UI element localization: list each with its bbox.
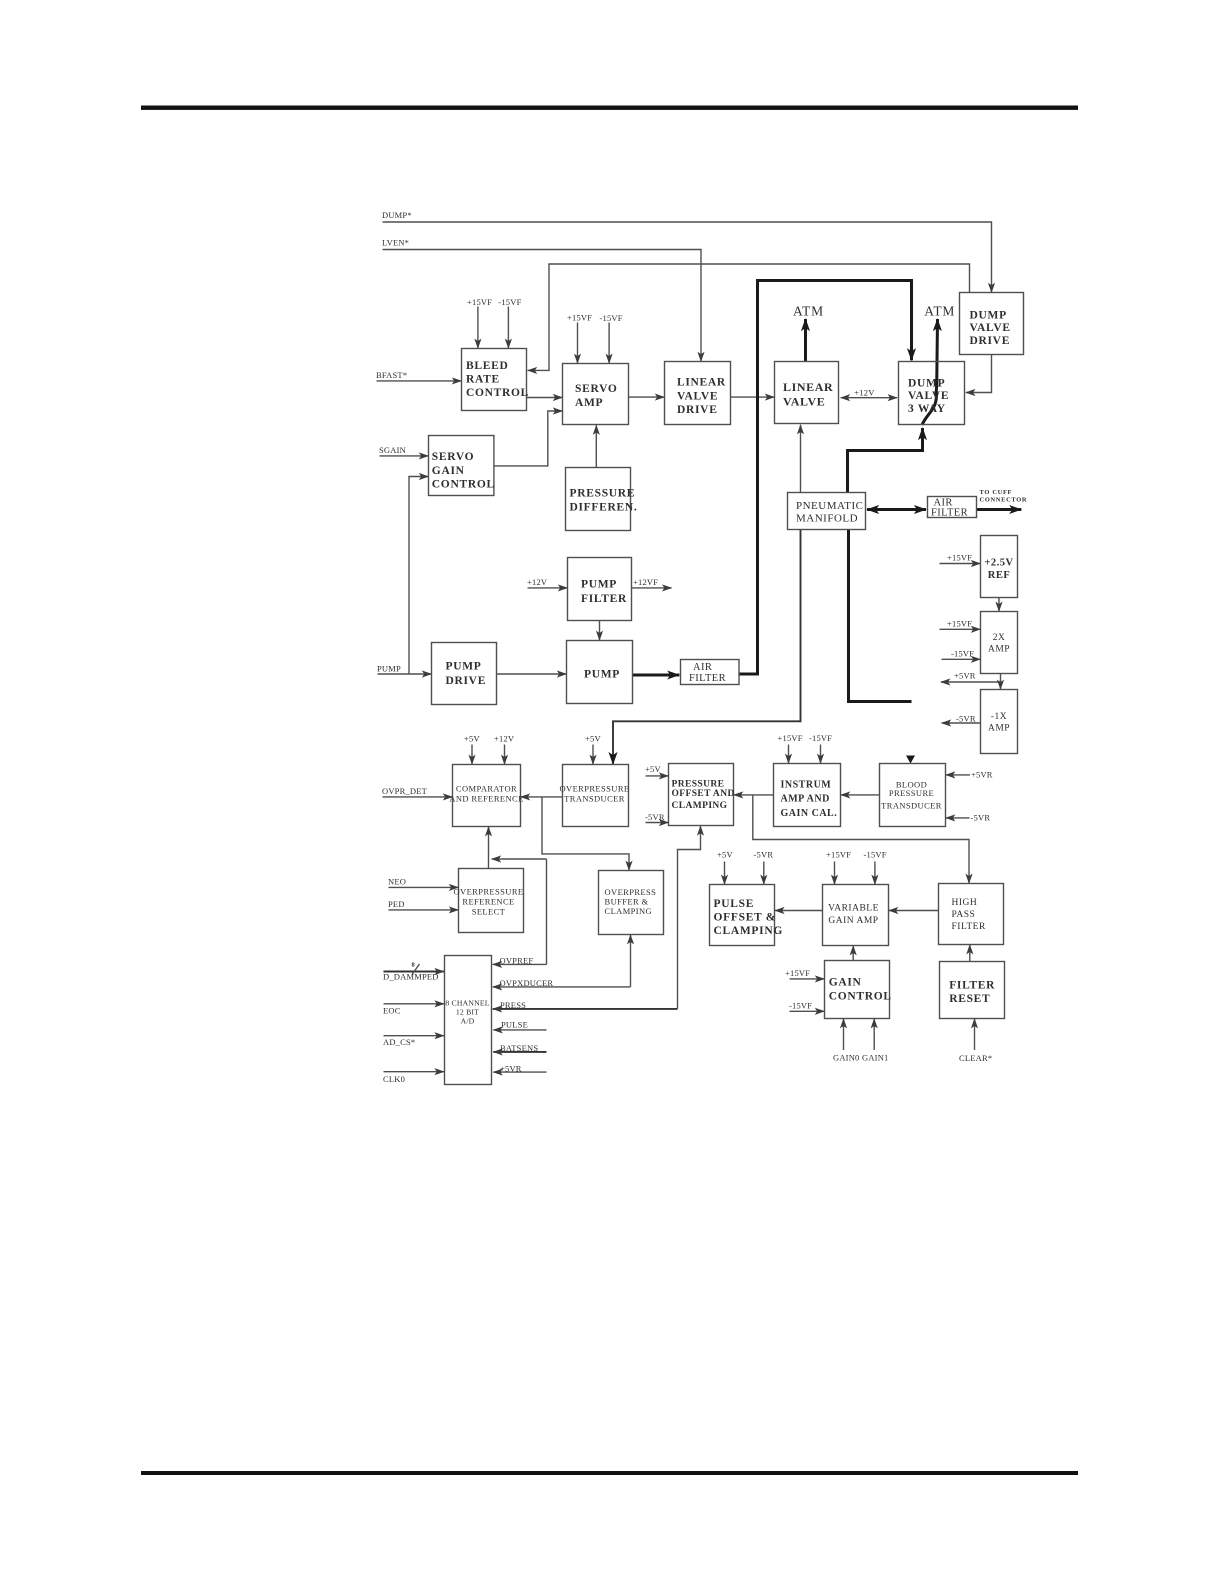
block PRESSURE DIFFEREN.	[566, 468, 638, 531]
wire NEO input	[388, 877, 458, 888]
svg-text:ATM: ATM	[793, 304, 824, 319]
wire SERVO GAIN CONTROL to SERVO AMP	[494, 411, 562, 466]
supply +5V into PRESSURE OFFSET AND CLAMPING	[645, 764, 668, 776]
svg-text:CLAMPING: CLAMPING	[672, 801, 728, 811]
block LINEAR VALVE DRIVE	[665, 362, 731, 425]
svg-text:+12V: +12V	[854, 388, 875, 398]
wire DUMP VALVE DRIVE to DUMP VALVE 3 WAY	[966, 355, 992, 393]
wire BATSENS stub into A/D	[493, 1043, 546, 1053]
svg-text:8: 8	[412, 962, 416, 969]
supply -5VR into BLOOD PRESSURE TRANSDUCER	[946, 813, 991, 823]
block FILTER RESET	[940, 962, 1005, 1019]
block INSTRUM AMP AND GAIN CAL	[774, 764, 841, 827]
svg-text:GAIN CAL.: GAIN CAL.	[781, 808, 838, 819]
svg-text:PULSE: PULSE	[714, 898, 755, 910]
block DUMP VALVE 3 WAY	[899, 362, 965, 425]
supply +5V into PULSE OFFSET	[717, 850, 733, 885]
pneumatic PNEUMATIC MANIFOLD to right AIR FILTER double arrow	[867, 508, 926, 511]
wire PUMP FILTER to PUMP	[599, 621, 601, 641]
wire +5VR stub into A/D	[493, 1063, 546, 1073]
supply +15VF into VARIABLE GAIN AMP	[826, 850, 851, 885]
svg-text:CONTROL: CONTROL	[829, 991, 892, 1003]
svg-text:DUMP: DUMP	[970, 310, 1007, 322]
svg-text:DRIVE: DRIVE	[677, 404, 718, 416]
svg-text:+15VF: +15VF	[826, 850, 851, 860]
svg-text:VALVE: VALVE	[783, 395, 825, 409]
ATM vent arrow above LINEAR VALVE	[793, 304, 824, 362]
block PUMP FILTER	[568, 558, 632, 621]
svg-text:LINEAR: LINEAR	[677, 377, 726, 389]
svg-text:DUMP: DUMP	[908, 378, 945, 390]
wire HIGH PASS FILTER to VARIABLE GAIN AMP	[889, 910, 939, 912]
wire PUMP input with branch to SERVO GAIN CONTROL	[377, 477, 431, 675]
wire OVPXDUCER from A/D to OVERPRESS BUFFER bottom	[493, 935, 631, 988]
pneumatic manifold down toward BLOOD PRESSURE TRANSDUCER	[849, 530, 912, 702]
wire GAIN0 input	[833, 1019, 860, 1063]
block +2.5V REF	[981, 536, 1018, 598]
svg-text:LVEN*: LVEN*	[382, 238, 409, 248]
wire branch to HIGH PASS FILTER	[753, 795, 969, 883]
svg-text:TRANSDUCER: TRANSDUCER	[564, 794, 625, 804]
bottom rule	[141, 1471, 1078, 1475]
wire PRESSURE DIFFEREN. to SERVO AMP	[595, 425, 597, 467]
svg-text:BATSENS: BATSENS	[500, 1043, 538, 1053]
svg-text:+15VF: +15VF	[947, 553, 972, 563]
svg-text:CONNECTOR: CONNECTOR	[980, 497, 1028, 504]
svg-text:FILTER: FILTER	[581, 593, 627, 605]
svg-text:PUMP: PUMP	[584, 669, 620, 681]
svg-text:OVPREF: OVPREF	[500, 956, 534, 966]
svg-text:3 WAY: 3 WAY	[908, 403, 946, 415]
svg-text:SGAIN: SGAIN	[379, 445, 406, 455]
pneumatic manifold to LINEAR VALVE bottom	[800, 425, 802, 493]
svg-text:CLEAR*: CLEAR*	[959, 1053, 992, 1063]
svg-text:+12V: +12V	[494, 734, 515, 744]
svg-text:TO CUFF: TO CUFF	[980, 489, 1013, 496]
svg-text:OFFSET AND: OFFSET AND	[672, 789, 735, 799]
block 2X AMP	[981, 612, 1018, 674]
svg-text:FILTER: FILTER	[949, 980, 995, 992]
pneumatic manifold down to OVERPRESSURE TRANSDUCER	[613, 530, 801, 765]
svg-text:VALVE: VALVE	[677, 391, 718, 403]
block PNEUMATIC MANIFOLD	[788, 493, 866, 530]
wire SGAIN input	[379, 445, 428, 456]
svg-text:+15VF: +15VF	[778, 733, 803, 743]
svg-text:-15VF: -15VF	[951, 649, 974, 659]
block AIR FILTER right	[928, 497, 977, 519]
wire +12V into PUMP FILTER	[527, 577, 567, 588]
svg-text:REF: REF	[988, 570, 1011, 581]
svg-text:PRESSURE: PRESSURE	[672, 779, 725, 789]
svg-text:SELECT: SELECT	[472, 907, 506, 917]
svg-text:GAIN0: GAIN0	[833, 1053, 860, 1063]
block COMPARATOR AND REFERENCE	[449, 765, 523, 827]
svg-text:RATE: RATE	[466, 373, 500, 385]
wire dump branch to BLEED RATE CONTROL	[528, 264, 970, 370]
block OVERPRESS BUFFER &amp; CLAMPING	[599, 871, 664, 935]
svg-text:+5VR: +5VR	[971, 770, 993, 780]
supply -15VF into SERVO AMP	[600, 313, 623, 363]
svg-text:AMP: AMP	[575, 397, 603, 409]
svg-text:REFERENCE: REFERENCE	[462, 897, 514, 907]
supply +5V into COMPARATOR AND REFERENCE	[464, 734, 480, 765]
block GAIN CONTROL	[825, 961, 892, 1019]
svg-text:CLAMPING: CLAMPING	[605, 906, 653, 916]
block VARIABLE GAIN AMP	[823, 885, 889, 946]
block 8 CHANNEL 12 BIT A/D	[445, 956, 492, 1085]
supply -15VF into INSTRUM AMP	[809, 733, 832, 763]
wire PUMP DRIVE to PUMP	[497, 673, 567, 675]
svg-text:OVPXDUCER: OVPXDUCER	[500, 978, 554, 988]
svg-text:INSTRUM: INSTRUM	[781, 780, 832, 791]
supply -15VF into 2X AMP	[942, 649, 981, 660]
svg-text:GAIN AMP: GAIN AMP	[828, 916, 878, 926]
block LINEAR VALVE	[775, 362, 839, 424]
wire +2.5V REF to 2X AMP	[998, 598, 1000, 612]
svg-text:BFAST*: BFAST*	[376, 370, 407, 380]
svg-text:+5V: +5V	[464, 734, 480, 744]
wire BFAST* input	[376, 370, 461, 381]
wire BLOOD PRESSURE TRANSDUCER to INSTRUM AMP	[841, 794, 880, 796]
svg-text:GAIN: GAIN	[829, 977, 862, 989]
svg-text:8 CHANNEL: 8 CHANNEL	[445, 999, 489, 1008]
supply +15VF into +2.5V REF	[940, 553, 981, 564]
svg-text:-5VR: -5VR	[645, 812, 665, 822]
wire D_DAMMPED bus into A/D with width-8 slash	[383, 962, 444, 982]
svg-text:FILTER: FILTER	[689, 673, 726, 684]
pneumatic AIR FILTER to cuff connector	[977, 489, 1028, 510]
svg-text:SERVO: SERVO	[575, 383, 618, 395]
svg-text:AMP: AMP	[988, 645, 1010, 655]
top rule	[141, 106, 1078, 110]
svg-text:PED: PED	[388, 899, 405, 909]
supply +15VF into BLEED RATE CONTROL	[467, 297, 492, 348]
wire +5VR output of 2X AMP and feed to -1X AMP	[941, 671, 1001, 690]
supply -15VF into GAIN CONTROL	[789, 1001, 824, 1012]
svg-text:-5VR: -5VR	[956, 714, 976, 724]
svg-text:FILTER: FILTER	[952, 922, 986, 932]
svg-text:PRESS: PRESS	[500, 1000, 526, 1010]
wire +12VF out of PUMP FILTER	[632, 577, 672, 588]
svg-text:+5VR: +5VR	[500, 1063, 522, 1073]
wire AD_CS* input	[383, 1036, 444, 1047]
supply +15VF into 2X AMP	[940, 619, 981, 630]
wire PRESS from A/D to PRESSURE OFFSET bottom	[493, 826, 701, 1010]
svg-text:CLK0: CLK0	[383, 1074, 405, 1084]
svg-text:VARIABLE: VARIABLE	[828, 904, 879, 914]
svg-text:OFFSET &: OFFSET &	[714, 912, 777, 924]
wire OVERPRESSURE REFERENCE SELECT to COMPARATOR	[488, 827, 490, 869]
block PULSE OFFSET &amp; CLAMPING	[710, 885, 784, 946]
supply -5VR into PRESSURE OFFSET AND CLAMPING	[645, 812, 668, 823]
block DUMP VALVE DRIVE	[960, 293, 1024, 355]
svg-text:AMP AND: AMP AND	[781, 794, 830, 805]
wire FILTER RESET to HIGH PASS FILTER	[969, 945, 971, 962]
wire LINEAR VALVE DRIVE to LINEAR VALVE	[731, 396, 775, 398]
block BLEED RATE CONTROL	[462, 349, 530, 411]
pneumatic PUMP to AIR FILTER	[633, 674, 680, 677]
svg-text:2X: 2X	[993, 633, 1006, 643]
svg-text:+5VR: +5VR	[954, 671, 976, 681]
svg-text:DUMP*: DUMP*	[382, 210, 412, 220]
block BLOOD PRESSURE TRANSDUCER	[880, 764, 946, 827]
svg-text:+2.5V: +2.5V	[984, 558, 1013, 569]
svg-text:AMP: AMP	[988, 724, 1010, 734]
svg-text:HIGH: HIGH	[952, 898, 978, 908]
svg-text:PULSE: PULSE	[501, 1020, 528, 1030]
supply -5VR into PULSE OFFSET	[754, 850, 774, 885]
svg-text:BUFFER &: BUFFER &	[605, 897, 649, 907]
block SERVO AMP	[563, 364, 629, 425]
pneumatic line PNEUMATIC MANIFOLD to DUMP VALVE 3 WAY bottom	[848, 428, 923, 493]
svg-text:OVPR_DET: OVPR_DET	[382, 786, 428, 796]
svg-text:DRIVE: DRIVE	[970, 335, 1011, 347]
svg-text:+15VF: +15VF	[785, 968, 810, 978]
block HIGH PASS FILTER	[939, 884, 1004, 945]
block AIR FILTER left	[681, 660, 740, 685]
supply +5V into OVERPRESSURE TRANSDUCER	[585, 734, 601, 765]
svg-text:-15VF: -15VF	[789, 1001, 812, 1011]
svg-text:FILTER: FILTER	[931, 508, 968, 519]
svg-text:TRANSDUCER: TRANSDUCER	[881, 801, 942, 811]
svg-text:COMPARATOR: COMPARATOR	[456, 784, 517, 794]
wire +12V between LINEAR VALVE and DUMP VALVE 3 WAY	[841, 388, 897, 398]
block PUMP	[567, 641, 633, 704]
supply +12V into COMPARATOR AND REFERENCE	[494, 734, 515, 765]
ATM vent arrow above DUMP VALVE 3 WAY with hose through valve	[922, 304, 955, 426]
wire CLEAR* input	[959, 1019, 992, 1063]
svg-text:PNEUMATIC: PNEUMATIC	[796, 500, 863, 512]
supply +15VF into INSTRUM AMP	[778, 733, 803, 763]
wire PULSE stub into A/D	[493, 1020, 546, 1030]
wire DUMP* to DUMP VALVE DRIVE	[382, 210, 992, 292]
svg-text:NEO: NEO	[388, 877, 406, 887]
svg-text:PUMP: PUMP	[581, 579, 617, 591]
svg-text:+15VF: +15VF	[467, 297, 492, 307]
svg-text:MANIFOLD: MANIFOLD	[796, 513, 858, 525]
svg-text:DRIVE: DRIVE	[446, 675, 487, 687]
svg-text:CLAMPING: CLAMPING	[714, 925, 784, 937]
wire INSTRUM AMP to PRESSURE OFFSET AND CLAMPING	[734, 794, 774, 796]
wire SERVO AMP to LINEAR VALVE DRIVE	[629, 396, 665, 398]
svg-text:-15VF: -15VF	[600, 313, 623, 323]
svg-text:-15VF: -15VF	[809, 733, 832, 743]
block OVERPRESSURE TRANSDUCER	[560, 765, 630, 827]
svg-text:PASS: PASS	[952, 910, 976, 920]
svg-text:+12V: +12V	[527, 577, 548, 587]
svg-text:+5V: +5V	[645, 764, 661, 774]
svg-text:+5V: +5V	[717, 850, 733, 860]
wire LVEN* to LINEAR VALVE DRIVE	[382, 238, 701, 362]
wire branch transducer output to OVERPRESS BUFFER	[542, 797, 629, 870]
svg-text:GAIN: GAIN	[432, 465, 465, 477]
svg-text:PRESSURE: PRESSURE	[889, 788, 934, 798]
wire VARIABLE GAIN AMP to PULSE OFFSET	[775, 910, 823, 912]
svg-text:OVERPRESS: OVERPRESS	[605, 887, 657, 897]
wire OVPR_DET input	[382, 786, 452, 797]
svg-text:RESET: RESET	[949, 993, 990, 1005]
wire BLEED RATE CONTROL to SERVO AMP	[527, 397, 563, 399]
block PUMP DRIVE	[432, 643, 497, 705]
block OVERPRESSURE REFERENCE SELECT	[454, 869, 524, 933]
svg-text:OVERPRESSURE: OVERPRESSURE	[560, 784, 630, 794]
svg-text:A/D: A/D	[461, 1017, 475, 1026]
svg-text:-15VF: -15VF	[498, 297, 521, 307]
svg-text:-1X: -1X	[991, 712, 1007, 722]
supply +15VF into SERVO AMP	[567, 313, 592, 364]
svg-text:+15VF: +15VF	[947, 619, 972, 629]
svg-text:DIFFEREN.: DIFFEREN.	[570, 502, 638, 514]
supply -15VF into VARIABLE GAIN AMP	[864, 850, 887, 885]
svg-text:PRESSURE: PRESSURE	[570, 488, 636, 500]
svg-text:BLEED: BLEED	[466, 360, 509, 372]
svg-text:PUMP: PUMP	[377, 664, 401, 674]
svg-text:AD_CS*: AD_CS*	[383, 1037, 415, 1047]
svg-text:GAIN1: GAIN1	[862, 1053, 889, 1063]
svg-text:12 BIT: 12 BIT	[456, 1008, 479, 1017]
supply -15VF into BLEED RATE CONTROL	[498, 297, 521, 348]
svg-text:AIR: AIR	[693, 662, 712, 673]
svg-text:EOC: EOC	[383, 1006, 401, 1016]
svg-text:OVERPRESSURE: OVERPRESSURE	[454, 887, 524, 897]
wire CLK0 input	[383, 1072, 444, 1085]
wire OVPREF from A/D up to reference junction	[493, 859, 547, 966]
svg-text:+5V: +5V	[585, 734, 601, 744]
svg-text:VALVE: VALVE	[908, 390, 949, 402]
svg-text:-5VR: -5VR	[754, 850, 774, 860]
wire GAIN CONTROL to VARIABLE GAIN AMP	[852, 946, 854, 961]
svg-text:SERVO: SERVO	[432, 451, 475, 463]
supply +5VR into BLOOD PRESSURE TRANSDUCER	[946, 770, 993, 780]
svg-text:VALVE: VALVE	[970, 322, 1011, 334]
svg-text:CONTROL: CONTROL	[466, 387, 529, 399]
svg-text:+12VF: +12VF	[633, 577, 658, 587]
svg-text:-15VF: -15VF	[864, 850, 887, 860]
svg-text:+15VF: +15VF	[567, 313, 592, 323]
svg-text:CONTROL: CONTROL	[432, 479, 495, 491]
supply +15VF into GAIN CONTROL	[785, 968, 824, 979]
svg-text:PUMP: PUMP	[446, 661, 482, 673]
arrowhead into BLOOD PRESSURE TRANSDUCER top	[906, 756, 915, 764]
pneumatic AIR FILTER up and over to DUMP VALVE 3 WAY top	[739, 281, 912, 675]
svg-text:-5VR: -5VR	[971, 813, 991, 823]
svg-text:LINEAR: LINEAR	[783, 380, 833, 394]
svg-text:ATM: ATM	[924, 304, 955, 319]
block -1X AMP	[981, 690, 1018, 754]
block SERVO GAIN CONTROL	[429, 436, 495, 496]
wire PED input	[388, 899, 458, 910]
wire OVERPRESSURE TRANSDUCER to COMPARATOR AND REFERENCE	[521, 796, 563, 798]
svg-text:D_DAMMPED: D_DAMMPED	[383, 971, 439, 981]
wire -5VR output of -1X AMP	[942, 714, 981, 724]
wire GAIN1 input	[862, 1019, 889, 1063]
wire OVPREF junction arrow into reference line	[492, 858, 547, 860]
block PRESSURE OFFSET AND CLAMPING	[669, 764, 735, 826]
svg-text:AND REFERENCE: AND REFERENCE	[449, 794, 523, 804]
wire EOC input	[383, 1004, 444, 1016]
